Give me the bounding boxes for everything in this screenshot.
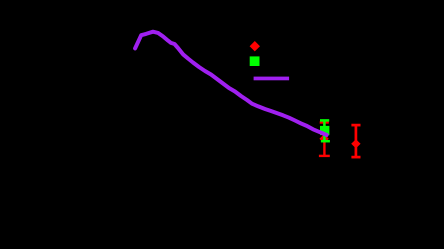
legend marker: green square (250, 56, 260, 66)
data point P1 red diamond (mostly hidden) (319, 134, 328, 143)
legend line (purple) (254, 77, 290, 81)
data point P2 red diamond marker (351, 139, 360, 148)
legend marker: red diamond (250, 41, 260, 51)
data point P1 green error bar (320, 120, 330, 141)
data point P1 green square marker (320, 126, 329, 135)
data point P2 red error bar (351, 125, 360, 157)
model curve (purple) (135, 32, 327, 135)
data point P1 red error bar (319, 123, 330, 156)
